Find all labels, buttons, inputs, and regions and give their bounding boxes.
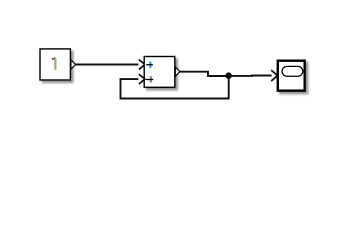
output port of Constant — [71, 60, 76, 69]
wire Sum output to junction (with step down) — [180, 72, 229, 76]
scope screen icon (rounded pill) — [282, 66, 303, 76]
constant block Constant value "1" — [40, 49, 70, 80]
scope block Scope — [278, 61, 305, 91]
value label "1" of Constant — [52, 58, 56, 70]
arrowhead at Sum input 2 — [139, 74, 145, 84]
plus sign for input 1 — [146, 62, 153, 68]
wire Constant to Sum input 1 — [76, 64, 139, 66]
wire junction to Scope — [229, 75, 272, 77]
arrowhead at Scope input — [271, 70, 277, 81]
output port of Sum — [175, 67, 180, 76]
plus sign for input 2 — [146, 76, 153, 82]
junction node — [225, 72, 231, 78]
sum block Add — [144, 57, 175, 88]
feedback wire junction to Sum input 2 — [121, 78, 229, 99]
arrowhead at Sum input 1 — [139, 60, 145, 70]
